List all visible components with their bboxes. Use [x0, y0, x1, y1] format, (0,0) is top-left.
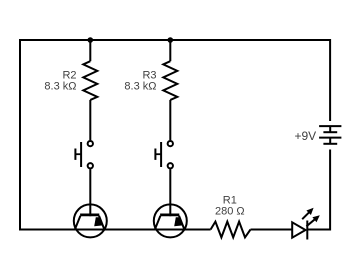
wire right rail lower [329, 150, 331, 231]
wire S2 to Q2 base [169, 169, 171, 216]
wire left rail [19, 39, 21, 231]
resistor R3 [163, 61, 177, 100]
svg-text:8.3 kΩ: 8.3 kΩ [44, 80, 76, 92]
label R2 value 8.3 kOhm [44, 69, 76, 92]
wire R1 to LED D1 [251, 229, 293, 231]
label R3 value 8.3 kOhm [124, 69, 156, 92]
svg-text:8.3 kΩ: 8.3 kΩ [124, 80, 156, 92]
pushbutton S2 [155, 141, 173, 169]
LED D1 [292, 208, 320, 240]
transistor Q1 [74, 204, 107, 237]
transistor Q2 [154, 204, 187, 237]
resistor R1 [211, 222, 251, 238]
pushbutton S1 [75, 141, 93, 169]
wire bottom rail [19, 229, 211, 231]
svg-text:280 Ω: 280 Ω [215, 205, 245, 217]
wire R3 to switch S2 [169, 100, 171, 140]
battery V1 [319, 126, 341, 144]
wire R2 to switch S1 [89, 100, 91, 140]
junction node at R2 top [88, 37, 94, 43]
label R1 value 280 Ohm [215, 194, 245, 217]
resistor R2 [83, 61, 97, 100]
svg-text:+9V: +9V [295, 129, 317, 143]
junction node at R3 top [168, 37, 174, 43]
wire top rail to R3 [169, 40, 171, 61]
wire S1 to Q1 base [89, 169, 91, 216]
wire top rail to R2 [89, 40, 91, 61]
wire right rail upper [329, 39, 331, 121]
wire top rail [20, 39, 330, 41]
wire LED to right rail [307, 229, 331, 231]
